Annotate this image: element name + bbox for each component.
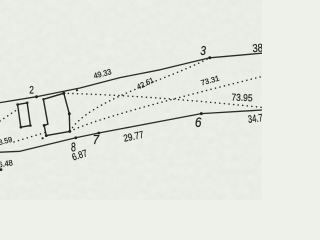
svg-text:34.75: 34.75 [247,112,262,126]
svg-text:6: 6 [195,114,202,130]
svg-text:3: 3 [200,45,206,58]
svg-text:2: 2 [29,85,34,97]
svg-text:38: 38 [252,43,262,56]
svg-text:73.95: 73.95 [231,92,253,104]
